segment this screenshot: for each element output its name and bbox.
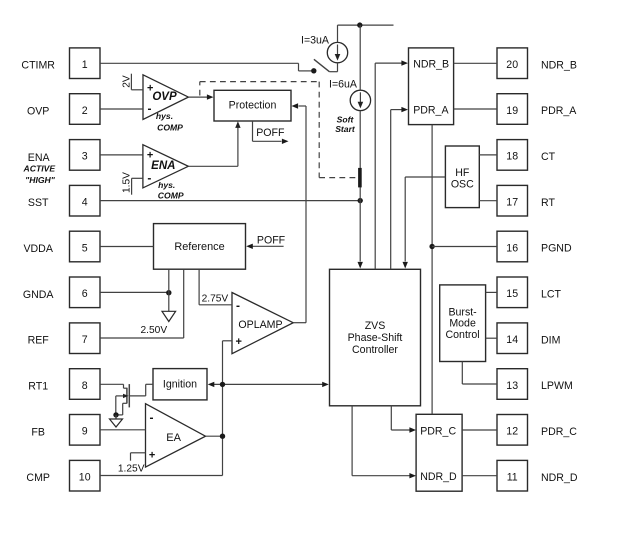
op-amp OVP comparator [143, 75, 188, 120]
svg-text:CTIMR: CTIMR [21, 60, 55, 72]
pin 6 (GNDA) [70, 277, 101, 308]
svg-text:Mode: Mode [449, 318, 476, 330]
svg-text:RT: RT [541, 197, 555, 209]
pin 8 (RT1) [70, 369, 101, 400]
wire I=3uA top to rail [337, 25, 339, 42]
svg-text:OSC: OSC [451, 179, 474, 191]
svg-text:I=3uA: I=3uA [301, 34, 330, 46]
svg-text:hys.: hys. [156, 111, 173, 121]
node GNDA junction [166, 290, 171, 295]
svg-text:COMP: COMP [157, 122, 183, 132]
svg-text:13: 13 [506, 380, 518, 392]
ground (Q1 source) [110, 415, 123, 427]
svg-text:+: + [149, 450, 155, 462]
svg-text:Controller: Controller [352, 344, 398, 356]
wire PDR_C to pin 12 [462, 429, 497, 431]
wire dashed protection control [200, 82, 358, 178]
svg-text:DIM: DIM [541, 334, 560, 346]
op-amp ENA comparator [143, 145, 188, 188]
node EA output junction [220, 434, 225, 439]
pin 20 (NDR_B) [497, 48, 528, 79]
block U8 gate drivers PDR_C / NDR_D [416, 414, 462, 491]
wire into PDR_A [391, 107, 408, 269]
svg-text:NDR_B: NDR_B [541, 59, 577, 71]
wire SST node down to ZVS with arrow [358, 262, 363, 269]
svg-text:5: 5 [82, 242, 88, 254]
wire pin2 OVP to comparator - input [100, 108, 143, 110]
svg-text:ZVS: ZVS [365, 320, 386, 332]
wire Ignition-ZVS bidirectional bus [208, 382, 329, 387]
wire pin7 REF to 2.50V [100, 337, 184, 339]
svg-text:20: 20 [506, 59, 518, 71]
svg-text:ACTIVE: ACTIVE [23, 163, 56, 173]
wire HF OSC to RT pin 17 [479, 200, 497, 202]
wire I=6uA to SST node and ZVS [359, 111, 361, 262]
label Soft Start [335, 114, 356, 134]
svg-text:FB: FB [31, 426, 45, 438]
block U5 gate drivers NDR_B / PDR_A [409, 48, 454, 125]
block U7 Burst-Mode Control [440, 285, 486, 362]
wire EA output bus down [222, 384, 224, 436]
svg-text:NDR_D: NDR_D [420, 471, 457, 483]
op-amp EA error amplifier [146, 404, 206, 467]
block U4 ZVS Phase-Shift Controller [330, 269, 421, 406]
svg-text:I=6uA: I=6uA [329, 78, 358, 90]
wire soft-start rail to I=6uA [359, 25, 361, 90]
pin 11 (NDR_D) [497, 460, 528, 491]
svg-text:VDDA: VDDA [23, 243, 53, 255]
svg-text:Start: Start [335, 124, 356, 134]
transistor Q1 (ignition MOSFET) [116, 384, 153, 415]
svg-text:14: 14 [506, 334, 518, 346]
label ACTIVE "HIGH" [23, 163, 56, 185]
svg-text:-: - [147, 171, 151, 185]
svg-text:LPWM: LPWM [541, 380, 573, 392]
svg-text:Protection: Protection [229, 100, 277, 112]
svg-text:COMP: COMP [158, 191, 184, 201]
svg-text:GNDA: GNDA [23, 289, 55, 301]
wire OPLAMP + to EA output bus [223, 341, 233, 385]
svg-text:10: 10 [79, 472, 91, 484]
wire 2.75V Reference to OPLAMP - [199, 269, 232, 305]
svg-text:17: 17 [506, 197, 518, 209]
wire pin8 RT1 to MOSFET gate [100, 384, 127, 388]
svg-text:EA: EA [166, 432, 181, 444]
wire POFF into Reference [246, 244, 283, 249]
svg-text:HF: HF [455, 167, 470, 179]
svg-text:OVP: OVP [152, 91, 177, 103]
pin 7 (REF) [70, 323, 101, 354]
wire pin4 SST to soft-start node [100, 200, 360, 202]
svg-text:-: - [150, 411, 154, 425]
wire OVP output to Protection [188, 94, 213, 99]
svg-text:SST: SST [28, 197, 49, 209]
wire pin3 ENA to comparator + input [100, 154, 143, 156]
block U6 HF OSC [445, 146, 479, 208]
node OPLAMP+ junction [220, 382, 225, 387]
switch S2 discharge bar [358, 168, 362, 188]
svg-text:12: 12 [506, 426, 518, 438]
wire Burst-Mode to LPWM pin 13 [462, 362, 497, 385]
pin 18 (CT) [497, 140, 528, 171]
pin 5 (VDDA) [70, 231, 101, 262]
svg-text:1: 1 [82, 59, 88, 71]
svg-text:2V: 2V [121, 75, 132, 88]
node rail junction [357, 22, 362, 27]
switch S1 blade [314, 59, 338, 71]
svg-text:9: 9 [82, 426, 88, 438]
svg-text:POFF: POFF [256, 127, 285, 139]
svg-text:Ignition: Ignition [163, 379, 197, 391]
wire pin1 CTIMR to switch [100, 63, 314, 71]
svg-text:Phase-Shift: Phase-Shift [348, 332, 403, 344]
wire HF OSC to CT pin 18 [479, 154, 497, 156]
wire top rail [338, 24, 394, 26]
wire Reference to GNDA ground [168, 269, 170, 311]
svg-text:16: 16 [506, 242, 518, 254]
pin 19 (PDR_A) [497, 94, 528, 125]
wire drivers block to PGND bus [431, 125, 433, 415]
op-amp OPLAMP [232, 293, 293, 354]
wire Reference 2.50V to REF pin [183, 269, 185, 338]
wire NDR_B block to pin 20 [454, 62, 497, 64]
wire PDR_A block to pin 19 [454, 108, 497, 110]
svg-text:19: 19 [506, 105, 518, 117]
svg-text:Control: Control [446, 329, 480, 341]
svg-text:Soft: Soft [337, 114, 355, 124]
svg-text:18: 18 [506, 151, 518, 163]
wire Burst-Mode to LCT pin 15 [486, 291, 497, 293]
pin 4 (SST) [70, 185, 101, 216]
svg-text:-: - [236, 299, 240, 313]
node switch contact [311, 68, 316, 73]
pin 10 (CMP) [70, 460, 101, 491]
reference 2V into OVP + [121, 74, 143, 90]
svg-text:POFF: POFF [257, 234, 286, 246]
wire ZVS to PDR_C [391, 406, 416, 433]
wire pin6 GNDA to ground node [100, 291, 169, 293]
svg-text:PDR_A: PDR_A [413, 104, 449, 116]
pin 3 (ENA) [70, 140, 101, 171]
wire pin9 FB to EA - input [100, 429, 146, 431]
current source I=6uA [350, 90, 370, 110]
svg-text:2.50V: 2.50V [141, 325, 168, 336]
svg-text:15: 15 [506, 288, 518, 300]
label hys. COMP (OVP) [156, 111, 183, 132]
pin 16 (PGND) [497, 231, 528, 262]
svg-text:PDR_C: PDR_C [420, 425, 456, 437]
svg-text:RT1: RT1 [28, 381, 48, 393]
current source I=3uA [327, 42, 347, 62]
svg-text:OPLAMP: OPLAMP [238, 319, 282, 331]
reference 1.25V into EA + [118, 453, 146, 475]
wire pin5 VDDA to Reference [100, 246, 154, 248]
svg-text:8: 8 [82, 380, 88, 392]
pin 2 (OVP) [70, 94, 101, 125]
svg-text:7: 7 [82, 334, 88, 346]
wire NDR_D to pin 11 [462, 475, 497, 477]
svg-text:"HIGH": "HIGH" [25, 175, 56, 185]
svg-text:NDR_B: NDR_B [413, 59, 449, 71]
svg-text:CMP: CMP [26, 472, 50, 484]
svg-text:2.75V: 2.75V [202, 293, 229, 304]
svg-text:6: 6 [82, 288, 88, 300]
pin 17 (RT) [497, 185, 528, 216]
svg-text:1.5V: 1.5V [122, 172, 133, 193]
pin 12 (PDR_C) [497, 415, 528, 446]
svg-text:3: 3 [82, 151, 88, 163]
svg-text:Reference: Reference [174, 241, 224, 253]
svg-text:2: 2 [82, 105, 88, 117]
svg-text:LCT: LCT [541, 289, 562, 301]
ground (GNDA) [162, 311, 176, 321]
node Q1 source junction [113, 412, 118, 417]
block U1 Protection [214, 90, 291, 121]
pin 14 (DIM) [497, 323, 528, 354]
svg-text:OVP: OVP [27, 106, 49, 118]
wire OPLAMP output to Protection right [292, 103, 307, 322]
svg-text:NDR_D: NDR_D [541, 472, 578, 484]
wire ZVS to NDR_D [352, 406, 416, 479]
wire pin10 CMP to EA output [100, 436, 223, 475]
svg-text:4: 4 [82, 197, 88, 209]
wire PGND to pin 16 [432, 246, 497, 248]
svg-text:ENA: ENA [28, 152, 51, 164]
pin 13 (LPWM) [497, 369, 528, 400]
svg-text:REF: REF [28, 335, 50, 347]
label hys. COMP (ENA) [158, 180, 184, 201]
svg-text:Burst-: Burst- [448, 306, 477, 318]
svg-text:-: - [148, 102, 152, 116]
svg-text:PDR_C: PDR_C [541, 426, 577, 438]
block U2 Reference [154, 224, 246, 270]
pin 9 (FB) [70, 415, 101, 446]
pin 1 (CTIMR) [70, 48, 101, 79]
svg-text:11: 11 [507, 472, 518, 484]
wire into NDR_B [375, 60, 408, 269]
svg-text:PGND: PGND [541, 243, 572, 255]
svg-text:PDR_A: PDR_A [541, 105, 577, 117]
svg-text:hys.: hys. [158, 180, 175, 190]
svg-text:CT: CT [541, 151, 556, 163]
pin 15 (LCT) [497, 277, 528, 308]
wire I=3uA bottom to switch [337, 63, 339, 72]
node SST junction [358, 198, 363, 203]
reference 1.5V into ENA - [122, 172, 143, 195]
wire Burst-Mode to DIM pin 14 [486, 337, 497, 339]
node PGND junction [429, 244, 434, 249]
wire EA output [206, 435, 223, 437]
svg-text:1.25V: 1.25V [118, 464, 145, 475]
svg-text:ENA: ENA [151, 160, 175, 172]
wire HF OSC to ZVS [403, 177, 446, 269]
svg-text:+: + [236, 336, 242, 348]
block U3 Ignition [153, 369, 207, 400]
wire POFF out of Protection [253, 121, 289, 144]
wire ENA output to Protection bottom [188, 121, 240, 166]
